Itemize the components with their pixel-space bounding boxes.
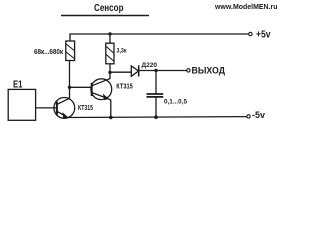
svg-text:-5v: -5v <box>252 110 265 120</box>
svg-text:68к...680к: 68к...680к <box>34 47 63 56</box>
svg-text:Е1: Е1 <box>13 80 23 91</box>
svg-text:КТ315: КТ315 <box>116 81 133 90</box>
svg-text:+5v: +5v <box>256 30 271 41</box>
svg-text:0,1...0,5: 0,1...0,5 <box>164 99 187 106</box>
svg-text:www.ModelMEN.ru: www.ModelMEN.ru <box>214 2 278 11</box>
svg-text:КТ315: КТ315 <box>78 103 94 112</box>
svg-text:Сенсор: Сенсор <box>94 3 124 14</box>
svg-text:3,3к: 3,3к <box>117 47 127 54</box>
svg-text:Д220: Д220 <box>142 62 158 69</box>
svg-text:ВЫХОД: ВЫХОД <box>192 66 226 76</box>
